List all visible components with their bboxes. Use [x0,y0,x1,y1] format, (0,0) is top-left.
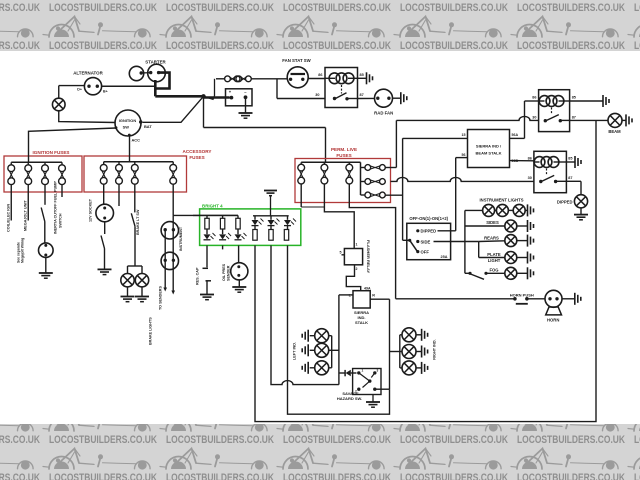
bottom watermark banner [0,424,640,480]
bright4 resistor 6 [284,230,288,241]
svg-text:OFF-ON(1)-ON(1+2): OFF-ON(1)-ON(1+2) [409,216,448,221]
ignition fuse 3 [44,162,46,165]
instrument gauge 1 [161,222,178,239]
wire horn push to horn [527,298,545,300]
fog switch [465,272,469,274]
svg-text:12V SOCKET: 12V SOCKET [89,198,93,222]
wire accessory fuse 4 to bright4 bus [173,214,238,216]
svg-text:IGNITION: IGNITION [119,118,136,123]
accessory fuse 3 [134,162,136,165]
beam lamp [608,113,622,127]
wire perm fuse 2 to dip relay 30 with hops [391,177,534,181]
brake lamp left ground [127,287,129,297]
wire 15 to sierra stalk [403,137,468,139]
rears ground [517,240,527,242]
alternator [84,78,101,95]
wire flasher 2 to stalk 49A [346,265,360,291]
bright4 resistor 5 [269,230,273,241]
wire alternator D+ to warning lamp [59,85,85,87]
megajolt feed stub [27,184,29,221]
light switch DIPPED terminal [416,229,419,232]
inline fuse 1 [216,78,225,80]
svg-text:BRAKE LIGHTS: BRAKE LIGHTS [149,317,153,345]
wire DIPPED up to stalk 56 [438,230,456,232]
svg-text:Megajolt Wiring: Megajolt Wiring [21,238,25,263]
perm fuse A [300,162,302,164]
ignition warning lamp [52,98,65,111]
coil feed stub [10,184,12,221]
svg-text:SAVAGE: SAVAGE [342,391,359,396]
svg-text:87: 87 [568,176,572,180]
svg-text:HORN PUSH: HORN PUSH [510,292,534,297]
svg-text:HORN: HORN [547,317,559,322]
junction node battery feed [201,94,205,98]
flasher relay box [344,249,362,265]
fan stat switch [287,67,308,88]
beam lamp ground [622,119,626,121]
wire junction to ignition BAT [143,96,204,122]
bright4 LED 4 [254,216,256,220]
instrument lights ground [525,209,527,211]
right indicator ground 2 [416,351,421,353]
12v socket feed [103,184,105,204]
left indicator ground 2 [310,349,315,351]
ignition fuse bus [11,161,62,163]
right indicator ground 3 [416,367,421,369]
wire perm fuse 1 up to beam relay 30 [385,167,396,169]
bright4 right bus grounded [253,215,289,217]
svg-text:RES. CAP: RES. CAP [196,267,200,285]
perm fuse 3 horizontal [361,194,365,196]
brake lamp right [135,274,148,287]
dip relay [534,151,567,192]
oil sender ground [238,280,240,287]
sides lamp [505,220,517,232]
rad fan motor [375,89,393,107]
left indicator lamp 2 [315,343,329,357]
res cap ground [200,294,214,296]
ignition fuse 4 stub [61,184,63,197]
bright4 LED 5 [270,216,272,220]
left indicator ground 3 [310,367,315,369]
svg-text:D+: D+ [77,88,82,92]
svg-text:ALTERNATOR: ALTERNATOR [73,71,103,76]
svg-text:30: 30 [532,115,536,119]
accessory fuses box [84,156,187,192]
svg-text:SIDE: SIDE [421,239,431,244]
svg-text:FUSES: FUSES [336,153,351,158]
perm fuse C to feed V3 [349,203,395,299]
oil pressure sender [231,263,248,280]
dipped lamp ground [580,208,582,215]
wire fan stat to relay 86 [308,78,325,80]
thick battery cable starter loop [155,73,169,89]
svg-text:RIGHT IND.: RIGHT IND. [432,339,436,359]
bright4 LED 3 [237,229,239,234]
horn push switch [513,297,517,301]
svg-text:BAT: BAT [144,124,152,129]
perm fuse C [348,162,350,164]
svg-text:BEAM: BEAM [608,129,621,134]
instrument gauge feed [172,184,174,215]
wire brake switch to brake lamps [134,226,136,266]
plate lamp [505,252,517,264]
svg-text:SWITCH: SWITCH [59,213,63,228]
wire stalk R to right indicators [370,298,389,300]
wire perm fuse 3 to stalk 15 feed [385,194,402,196]
perm fuse A lower stub [300,203,302,208]
side circuit feed riser [464,210,466,273]
ignition fuses box [4,156,82,192]
svg-text:BRAKE LT SW: BRAKE LT SW [136,209,140,235]
svg-text:86: 86 [528,156,532,160]
wire beam loop right side [255,120,596,421]
wire to beam relay 30 with hop [396,116,538,120]
brake light switch [131,213,135,226]
wire junction to permanent fuse feed [214,79,216,96]
svg-text:SENDER: SENDER [227,265,231,281]
12v socket [96,204,114,222]
horn ground [562,298,574,300]
left indicator lamp 3 [315,361,329,375]
svg-text:ACCESSORY: ACCESSORY [183,149,212,154]
bright4 resistor 4 [253,230,257,241]
perm fuse B to flasher relay [324,203,354,249]
wire ignition ACC to accessory bus [129,137,131,162]
svg-text:INSTRUMENT LIGHTS: INSTRUMENT LIGHTS [480,197,524,202]
svg-text:5: 5 [340,251,342,255]
light switch OFF terminal [416,250,419,253]
svg-text:85: 85 [568,156,572,160]
right indicator lamp 3 [402,361,416,375]
svg-text:87: 87 [360,93,364,97]
left indicator ground 1 [310,335,315,337]
svg-text:DIPPED: DIPPED [557,199,573,204]
svg-text:OIL PRES: OIL PRES [222,263,226,281]
svg-text:IGNITION FUSES: IGNITION FUSES [32,150,69,155]
perm live fuse bus [301,161,360,163]
oil pressure sender feed [238,245,240,262]
brake lamp left [121,274,134,287]
svg-text:SIDES: SIDES [486,220,499,225]
diode to hazard switch [339,372,345,374]
res cap [206,245,208,267]
svg-text:RAD FAN: RAD FAN [374,111,393,116]
ignition switch [115,110,141,136]
inline fuse 2 [236,76,242,82]
bright4 left bus [193,214,238,216]
starter motor [148,64,166,82]
wire stalk 56B to dip relay 86 [510,160,534,162]
svg-text:SIERRA IND /: SIERRA IND / [476,144,502,149]
svg-text:ACC: ACC [132,138,141,143]
light switch SIDE terminal [416,240,419,243]
svg-text:85: 85 [360,73,364,77]
svg-text:STARTER: STARTER [145,59,166,64]
wire beam relay 87 to beam lamp [570,119,608,121]
accessory fuse 1 [103,162,105,165]
svg-text:86: 86 [532,95,536,99]
brake light switch feed [134,184,136,212]
bright4 col2 stub [222,245,224,249]
savage hazard switch box [353,369,381,395]
wire junction down to fuse bus feed [203,96,205,127]
fog lamp [505,267,517,279]
svg-text:FUSES: FUSES [189,155,204,160]
svg-text:25A: 25A [441,255,448,259]
dip relay 85 ground [566,161,574,163]
svg-text:86: 86 [318,73,322,77]
svg-text:DIPPED: DIPPED [421,229,437,234]
svg-text:MEGAJOLT UNIT: MEGAJOLT UNIT [24,200,28,231]
svg-text:HAZARD SW.: HAZARD SW. [337,396,362,401]
12v socket switch [104,222,106,234]
wire inline fuses to fan stat switch [251,78,287,80]
right indicator lamp 1 [402,328,416,342]
fuel pump ground [45,258,47,274]
wire to rad fan relay 30 [277,98,325,100]
instrument gauge 2 [161,252,178,269]
svg-text:1: 1 [362,369,364,373]
svg-text:−: − [244,90,247,95]
svg-text:FAN STAT SW: FAN STAT SW [282,58,311,63]
svg-text:BEAM STALK: BEAM STALK [476,151,502,156]
battery [226,89,253,106]
rears lamp [505,235,517,247]
fuel pump [39,243,54,258]
wire stalk 56A to beam relay 86 [510,137,525,139]
svg-text:1: 1 [356,243,358,247]
top watermark banner [0,0,640,51]
perm fuse 1 horizontal [361,167,365,169]
sierra indicator stalk box [353,291,370,308]
wire alternator B+ to battery cable [102,85,156,87]
svg-text:56: 56 [462,153,466,157]
accessory fuse bus [104,161,174,163]
thick cable junction to battery + [204,96,230,99]
vertical feed V2 to light switch [402,138,404,240]
svg-text:R: R [372,294,375,298]
instrument lamp 3 [508,209,513,211]
perm live fuses box [295,159,391,203]
wire gauges to senders [164,230,166,288]
wire dip relay 87 to dipped lamp [566,180,581,182]
bright 4 box [200,209,301,246]
wire ignition switch to ignition fuse bus [29,128,117,162]
right indicator lamp 2 [402,345,416,359]
plate light feed [478,242,480,258]
svg-text:87: 87 [572,115,576,119]
svg-text:15: 15 [462,133,466,137]
sides lamp feed [465,225,505,227]
wire lamp to ignition switch [59,111,116,123]
accessory fuse 4 [172,162,174,165]
svg-text:STALK: STALK [355,320,368,325]
plate ground [517,257,527,259]
wire V3 to horn push [396,298,515,300]
left indicator bus [331,336,333,368]
rears feed [479,240,505,243]
light switch lever [408,239,411,242]
bright4 resistor 2 [222,215,224,218]
svg-text:56A: 56A [512,133,519,137]
right indicator ground 1 [416,334,421,336]
bright4 LED 6 [287,216,289,220]
light switch box [407,223,451,259]
thick battery cable to junction [154,80,157,96]
sierra beam stalk box [468,130,510,168]
wire bright4 led6 to right ind loop [288,245,390,414]
instrument lamp 1 [483,204,495,216]
svg-text:30: 30 [528,176,532,180]
svg-text:FLASHER RELAY: FLASHER RELAY [366,240,371,274]
rad fan relay 85 ground [358,77,367,79]
svg-text:3: 3 [377,369,379,373]
wire hazard to right riser [375,388,390,390]
bright4 LED 2 [222,229,224,234]
svg-text:REARS: REARS [484,236,499,241]
accessory fuse 2 [118,162,120,165]
instrument lamp 2 [495,209,497,211]
node fan feed branch [276,79,278,99]
svg-text:LEFT IND.: LEFT IND. [293,342,297,360]
wire solenoid to starter [141,72,151,74]
rad fan relay [325,68,358,108]
dipped lamp [574,195,587,208]
svg-text:BRIGHT 4: BRIGHT 4 [202,203,223,208]
beam relay 85 ground [570,100,603,102]
svg-text:TO SENDERS: TO SENDERS [159,286,163,310]
brake lamp right ground [141,287,143,297]
svg-text:PLATE: PLATE [487,252,501,257]
wire relay 87 to rad fan [358,97,375,99]
bright4 resistor 1 [206,215,208,218]
right indicator bus [399,335,401,368]
wire bright4 led5 to left ind loop [271,245,339,384]
bright4 resistor 3 [237,215,239,218]
light switch feed [403,239,410,241]
instrument lights feed [465,209,483,211]
svg-text:+: + [229,90,232,95]
svg-text:30: 30 [315,93,319,97]
svg-text:SW: SW [123,125,130,130]
starter solenoid [129,66,143,80]
rad fan ground [393,97,401,99]
svg-text:COIL/ELEC IGN: COIL/ELEC IGN [7,204,11,232]
svg-text:B+: B+ [103,90,108,94]
ignition fuse 2 [27,162,29,165]
wire SIDE output [434,241,479,243]
perm fuse 2 horizontal [361,181,365,183]
accessory fuse 2 stub [118,184,120,206]
fog ground [517,272,527,274]
sides ground [517,225,527,227]
svg-text:LIGHT: LIGHT [488,258,501,263]
perm fuse B [323,162,325,164]
svg-text:INSTRUMENT: INSTRUMENT [179,226,183,251]
ignition fuse 1 [10,162,12,165]
svg-text:2: 2 [356,267,358,271]
ignition fuse 4 [61,162,63,165]
wire stalk L to left indicators [339,294,353,296]
12v socket ground [98,268,112,270]
inertia cutoff switch [44,184,46,205]
svg-text:85: 85 [572,95,576,99]
left indicator lamp 1 [315,329,329,343]
hazard switch ground [372,395,374,403]
fog lamp feed [486,272,505,274]
svg-text:FOG: FOG [489,267,498,272]
svg-text:OFF: OFF [421,249,430,254]
svg-text:PERM. LIVE: PERM. LIVE [331,147,357,152]
svg-text:INERTIA CUTOFF FUEL PUMP: INERTIA CUTOFF FUEL PUMP [54,181,58,234]
bright4 LED 1 [206,229,208,234]
battery ground [245,106,247,113]
horn [545,290,562,307]
bright4 ground inverted [264,190,277,192]
beam relay [539,90,570,132]
